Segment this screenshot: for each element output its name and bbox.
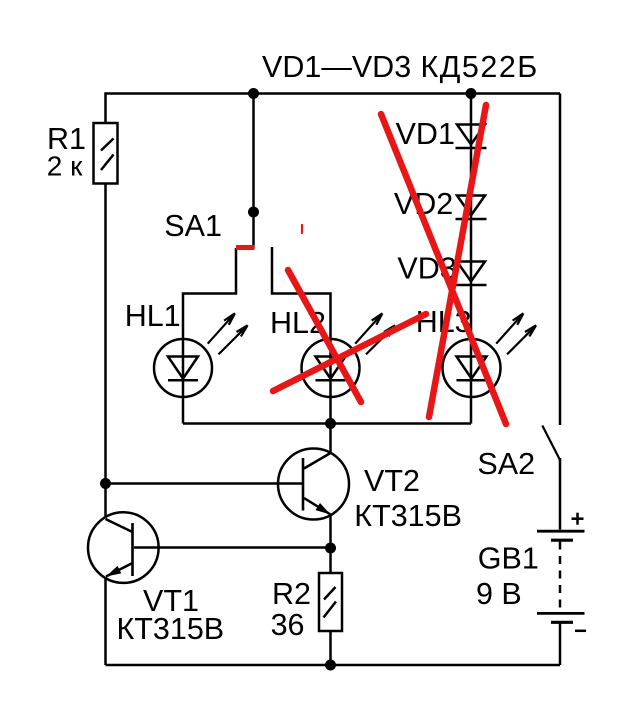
svg-text:R2: R2 [272, 577, 311, 611]
wire VT2 collector [329, 424, 332, 453]
switch SA2 blade [542, 426, 560, 462]
wire SA1 common vertical [252, 94, 255, 248]
svg-text:9 В: 9 В [476, 577, 522, 611]
HL2 light arrows [355, 313, 395, 354]
junction dot SA1 top [248, 207, 259, 218]
wire SA1 left contact to HL1 top [183, 248, 236, 339]
transistor VT2 [278, 449, 349, 520]
wire SA2 bottom to battery [559, 458, 562, 530]
battery minus sign [575, 630, 586, 633]
wire SA1 right contact to HL2 top [272, 247, 331, 339]
wire top rail [106, 92, 561, 95]
VT1 emitter arrow [106, 566, 121, 577]
svg-text:VT2: VT2 [364, 464, 420, 498]
diode VD3 [456, 262, 487, 286]
junction dot top rail VD chain [466, 88, 477, 99]
red cross line A over VD/HL3 [381, 114, 506, 424]
HL1 light arrows [208, 313, 248, 354]
svg-text:SA2: SA2 [477, 447, 535, 481]
svg-text:КТ315В: КТ315В [117, 612, 225, 646]
svg-text:КТ315В: КТ315В [354, 499, 462, 533]
diode VD2 [456, 196, 487, 220]
wire left vertical top rail to R1 [104, 92, 107, 123]
red stray tick near SA1 [301, 225, 303, 233]
svg-text:HL1: HL1 [125, 299, 181, 333]
battery GB1 [537, 531, 585, 622]
svg-text:VD1—VD3: VD1—VD3 [262, 50, 411, 84]
resistor R1 [94, 123, 118, 184]
LED HL2 [302, 339, 360, 424]
diode VD1 [456, 125, 487, 149]
wire VT2 base wire [106, 482, 304, 485]
LED HL3 [443, 339, 501, 424]
svg-text:36: 36 [271, 608, 305, 642]
junction dot R2 bottom / bottom rail [325, 660, 336, 671]
wire battery bottom to bottom rail [559, 622, 562, 665]
wire R2 bottom to bottom rail [329, 631, 332, 665]
wire VT2 emitter down to node [329, 515, 332, 549]
resistor R2 [319, 573, 342, 631]
HL3 light arrows [496, 313, 536, 354]
svg-text:КД522Б: КД522Б [421, 50, 539, 84]
switch SA1 red lever (closed to left contact) [236, 245, 255, 250]
svg-text:VD1: VD1 [396, 117, 455, 151]
red cross line B over VD/HL3 [429, 105, 486, 417]
svg-text:2 к: 2 к [47, 151, 83, 182]
LED HL1 [154, 339, 212, 424]
wire VT1 emitter down to bottom rail [104, 577, 107, 665]
junction dot left wire / VT2 base [100, 478, 111, 489]
wire VD chain vertical from top rail [470, 94, 473, 340]
wire right vertical top rail to SA2 [559, 94, 562, 426]
wire VT1 base wire [134, 546, 331, 549]
svg-text:GB1: GB1 [478, 542, 539, 576]
wire node to R2 top [329, 548, 332, 573]
junction dot top rail SA1 [248, 88, 259, 99]
battery plus sign [572, 513, 584, 525]
junction dot VT2 emitter / VT1 base / R2 [325, 543, 336, 554]
svg-text:SA1: SA1 [164, 209, 222, 243]
wire R1 bottom to VT1 collector [104, 184, 107, 518]
VT2 emitter arrow [316, 503, 331, 515]
transistor VT1 [88, 512, 159, 583]
wire bottom rail [106, 664, 561, 667]
wire LED bottom rail [183, 422, 471, 425]
red cross line D over HL2 [273, 314, 426, 391]
junction dot LED rail / VT2 collector [325, 418, 336, 429]
red cross line C over HL2 [288, 270, 361, 402]
